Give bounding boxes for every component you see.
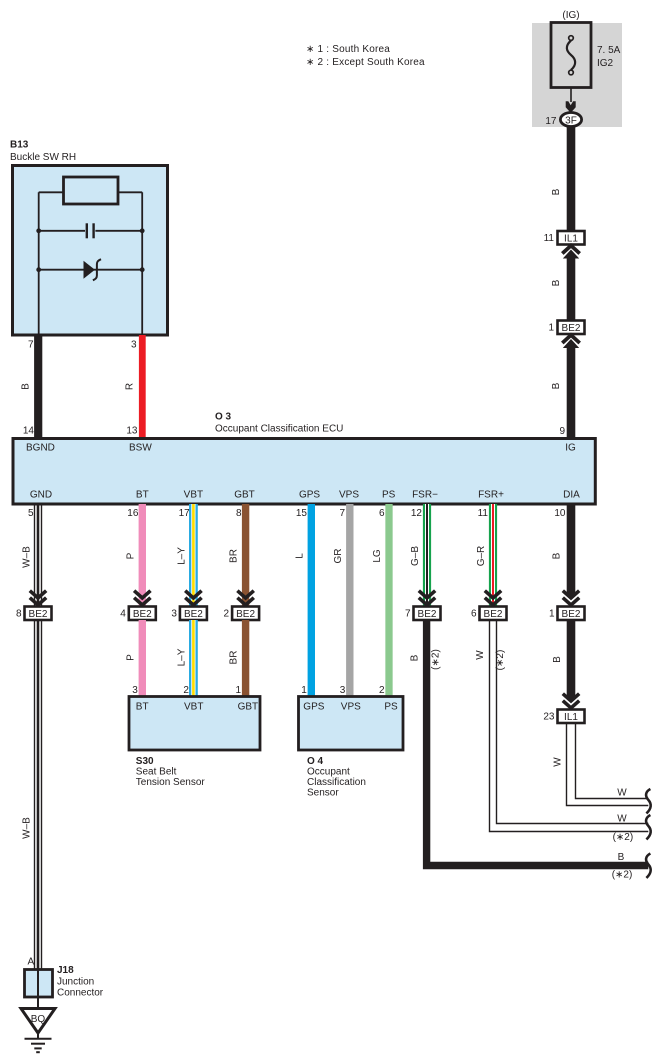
svg-text:VPS: VPS <box>339 490 359 501</box>
connector BE2 pin 2 <box>224 607 260 621</box>
svg-text:Tension Sensor: Tension Sensor <box>136 777 206 788</box>
svg-text:(IG): (IG) <box>562 10 579 21</box>
svg-text:3: 3 <box>171 609 177 620</box>
arrow down to BE2 (4) <box>134 591 150 605</box>
svg-text:GPS: GPS <box>303 702 324 713</box>
svg-text:Occupant: Occupant <box>307 767 350 778</box>
svg-text:LG: LG <box>372 549 383 563</box>
wire B between IL1 and BE2 <box>567 255 576 321</box>
svg-text:L–Y: L–Y <box>177 547 188 565</box>
fuse value label 7.5A IG2 <box>597 45 621 69</box>
svg-text:Buckle SW RH: Buckle SW RH <box>10 152 76 163</box>
wire B FSR- lower with bend to right edge <box>427 620 649 866</box>
continuation squiggle 1 <box>646 789 651 813</box>
component O4 Occupant Classification Sensor <box>299 697 404 799</box>
wire capacitor row <box>39 230 85 232</box>
arrow down to BE2 (8) <box>30 591 46 605</box>
wire P BT upper <box>139 504 146 607</box>
svg-text:3: 3 <box>132 685 138 696</box>
wire B from 3F to IL1 <box>567 127 576 232</box>
wire B13 internal left vertical <box>38 192 40 335</box>
svg-text:6: 6 <box>471 609 477 620</box>
svg-text:FSR−: FSR− <box>412 490 438 501</box>
svg-text:W: W <box>553 757 564 767</box>
wire B from B13 pin 7 to ECU pin 14 <box>34 335 42 438</box>
connector BE2 pin 3 <box>171 607 207 621</box>
arrow up to IL1 <box>562 246 579 259</box>
svg-text:(∗2): (∗2) <box>431 649 442 670</box>
svg-text:O 4: O 4 <box>307 756 324 767</box>
arrow down to BE2 (6) <box>485 591 501 605</box>
svg-text:A: A <box>28 957 35 968</box>
svg-text:G–B: G–B <box>410 546 421 566</box>
svg-text:Occupant Classification ECU: Occupant Classification ECU <box>215 424 343 435</box>
svg-text:P: P <box>126 552 137 559</box>
svg-text:BE2: BE2 <box>29 609 48 620</box>
svg-text:12: 12 <box>411 508 423 519</box>
svg-text:B13: B13 <box>10 140 29 151</box>
svg-text:FSR+: FSR+ <box>478 490 504 501</box>
svg-text:6: 6 <box>379 508 385 519</box>
wire GR VPS <box>346 504 353 697</box>
svg-text:(∗2): (∗2) <box>495 650 506 671</box>
svg-text:2: 2 <box>379 685 385 696</box>
connector 3F pin 17 <box>545 113 581 128</box>
svg-text:GR: GR <box>333 549 344 564</box>
svg-text:BE2: BE2 <box>184 609 203 620</box>
connector BE2 pin 8 <box>16 607 52 621</box>
wire G-R FSR+ upper <box>489 504 497 607</box>
svg-text:16: 16 <box>127 508 139 519</box>
svg-text:VBT: VBT <box>184 490 203 501</box>
ECU O3 title <box>215 412 343 435</box>
svg-text:P: P <box>126 654 137 661</box>
connector J18 Junction Connector <box>25 965 104 999</box>
arrow down to BE2 (7) <box>419 591 435 605</box>
svg-text:B: B <box>551 382 562 389</box>
zener diode <box>84 259 102 280</box>
arrow down to BE2 (1) <box>563 591 579 605</box>
connector BE2 pin 7 <box>405 607 441 621</box>
svg-text:L: L <box>295 553 306 559</box>
svg-text:GBT: GBT <box>234 490 255 501</box>
svg-text:B: B <box>552 656 563 663</box>
svg-text:7: 7 <box>405 609 411 620</box>
svg-text:BQ: BQ <box>31 1014 46 1025</box>
svg-text:(∗2): (∗2) <box>613 832 634 843</box>
wire diode row <box>39 269 143 271</box>
svg-text:∗ 1 : South Korea: ∗ 1 : South Korea <box>306 44 390 55</box>
wire W-B lower segment to J18 <box>35 620 42 970</box>
node dots diode row <box>36 267 41 272</box>
svg-text:2: 2 <box>224 609 230 620</box>
svg-text:Junction: Junction <box>57 977 94 988</box>
svg-text:8: 8 <box>16 609 22 620</box>
connector BE2 pin 4 <box>120 607 156 621</box>
svg-text:15: 15 <box>296 508 308 519</box>
wire B from BE2 to ECU pin 9 <box>567 345 576 439</box>
connector BE2 pin 1 (upper) <box>548 321 584 335</box>
resistor block (switch body) <box>64 177 119 204</box>
svg-text:BE2: BE2 <box>562 609 581 620</box>
svg-text:17: 17 <box>179 508 191 519</box>
svg-text:GND: GND <box>30 490 52 501</box>
wire B DIA upper <box>567 504 576 596</box>
svg-text:PS: PS <box>384 702 398 713</box>
svg-text:7: 7 <box>339 508 345 519</box>
svg-text:BR: BR <box>229 651 240 665</box>
component B13 Buckle SW RH <box>10 140 168 336</box>
svg-text:13: 13 <box>126 426 138 437</box>
svg-text:R: R <box>125 383 136 390</box>
svg-text:BE2: BE2 <box>418 609 437 620</box>
component S30 Seat Belt Tension Sensor <box>129 697 260 789</box>
svg-text:GBT: GBT <box>238 702 259 713</box>
arrow down to BE2 (2) <box>237 591 253 605</box>
wire G-B FSR- upper <box>423 504 431 607</box>
svg-text:L–Y: L–Y <box>177 648 188 666</box>
fuse F 7.5A IG2 <box>551 23 591 88</box>
wire J18 to ground triangle <box>37 997 39 1009</box>
svg-text:9: 9 <box>559 426 565 437</box>
svg-text:BT: BT <box>136 490 149 501</box>
svg-text:G–R: G–R <box>476 546 487 567</box>
svg-text:5: 5 <box>28 508 34 519</box>
wire B DIA to IL1 <box>567 620 576 700</box>
capacitor C <box>87 223 94 238</box>
svg-text:1: 1 <box>236 685 242 696</box>
arrow into 3F <box>566 101 576 113</box>
svg-text:S30: S30 <box>136 756 154 767</box>
svg-text:11: 11 <box>544 233 555 244</box>
svg-text:J18: J18 <box>57 965 74 976</box>
wire L-Y VBT upper <box>189 504 198 607</box>
svg-text:B: B <box>618 852 625 863</box>
svg-text:B: B <box>552 552 563 559</box>
svg-text:3: 3 <box>340 685 346 696</box>
IG power source shaded area <box>532 23 622 127</box>
ground point BQ triangle <box>21 1009 55 1034</box>
svg-text:1: 1 <box>549 609 555 620</box>
svg-text:W: W <box>617 814 627 825</box>
svg-text:17: 17 <box>545 116 557 127</box>
svg-text:B: B <box>410 654 421 661</box>
svg-text:W: W <box>617 788 627 799</box>
svg-text:2: 2 <box>183 685 189 696</box>
wire BR GBT upper <box>242 504 249 607</box>
wire BR GBT lower <box>242 620 249 697</box>
svg-text:B: B <box>551 188 562 195</box>
wire B13 internal right vertical <box>141 192 143 335</box>
svg-text:1: 1 <box>548 323 554 334</box>
svg-text:10: 10 <box>554 508 566 519</box>
arrow down to IL1 (23) <box>563 694 579 708</box>
svg-text:8: 8 <box>236 508 242 519</box>
svg-text:Seat Belt: Seat Belt <box>136 767 177 778</box>
wire W from IL1 with bend to right edge <box>567 723 649 806</box>
svg-text:GPS: GPS <box>299 490 320 501</box>
wire W FSR+ lower with bend to right edge <box>490 620 649 832</box>
svg-text:BGND: BGND <box>26 443 55 454</box>
svg-text:IL1: IL1 <box>564 234 578 245</box>
connector IL1 pin 11 <box>544 231 585 245</box>
svg-text:(∗2): (∗2) <box>612 870 633 881</box>
svg-text:4: 4 <box>120 609 126 620</box>
connector IL1 pin 23 <box>543 710 584 724</box>
svg-text:IL1: IL1 <box>564 712 578 723</box>
svg-text:BE2: BE2 <box>133 609 152 620</box>
svg-text:BE2: BE2 <box>484 609 503 620</box>
svg-text:23: 23 <box>543 712 555 723</box>
node dots capacitor row <box>36 228 41 233</box>
svg-text:B: B <box>21 383 32 390</box>
svg-text:7. 5A: 7. 5A <box>597 45 621 56</box>
svg-text:11: 11 <box>478 508 489 519</box>
connector BE2 pin 6 <box>471 607 507 621</box>
svg-text:7: 7 <box>28 340 34 351</box>
svg-text:∗ 2 : Except South Korea: ∗ 2 : Except South Korea <box>306 57 425 68</box>
svg-text:VBT: VBT <box>184 702 203 713</box>
svg-text:O 3: O 3 <box>215 412 232 423</box>
svg-text:W–B: W–B <box>22 817 33 839</box>
svg-text:IG2: IG2 <box>597 58 614 69</box>
svg-text:BSW: BSW <box>129 443 152 454</box>
svg-text:BT: BT <box>136 702 149 713</box>
arrow down to BE2 (3) <box>185 591 201 605</box>
wire resistor row <box>39 191 64 193</box>
svg-text:Sensor: Sensor <box>307 788 339 799</box>
wire L-Y VBT lower <box>189 620 198 697</box>
svg-text:BE2: BE2 <box>236 609 255 620</box>
svg-text:VPS: VPS <box>341 702 361 713</box>
svg-text:BR: BR <box>229 549 240 563</box>
wire L GPS <box>308 504 315 697</box>
svg-text:IG: IG <box>565 443 576 454</box>
note: variant legend <box>306 44 425 68</box>
continuation squiggle 2 <box>646 815 651 839</box>
svg-text:BE2: BE2 <box>562 323 581 334</box>
svg-text:3: 3 <box>131 340 137 351</box>
svg-text:14: 14 <box>23 426 35 437</box>
svg-text:Classification: Classification <box>307 777 366 788</box>
svg-text:B: B <box>551 279 562 286</box>
wire P BT lower <box>139 620 146 697</box>
svg-text:W: W <box>475 650 486 660</box>
wire R from B13 pin 3 to ECU pin 13 <box>139 335 146 438</box>
svg-text:PS: PS <box>382 490 396 501</box>
connector BE2 pin 1 (lower) <box>549 607 585 621</box>
svg-text:3F: 3F <box>565 116 577 127</box>
op ECU box O3 <box>13 439 595 505</box>
ground symbol <box>25 1033 52 1052</box>
arrow up to BE2 <box>562 335 579 348</box>
svg-text:W–B: W–B <box>22 546 33 568</box>
svg-text:1: 1 <box>301 685 307 696</box>
svg-text:Connector: Connector <box>57 988 104 999</box>
svg-text:DIA: DIA <box>563 490 580 501</box>
wire fuse to connector 3F <box>570 88 572 103</box>
wire W-B GND upper segment <box>35 504 42 607</box>
continuation squiggle 3 <box>646 854 651 878</box>
wire LG PS <box>385 504 392 697</box>
